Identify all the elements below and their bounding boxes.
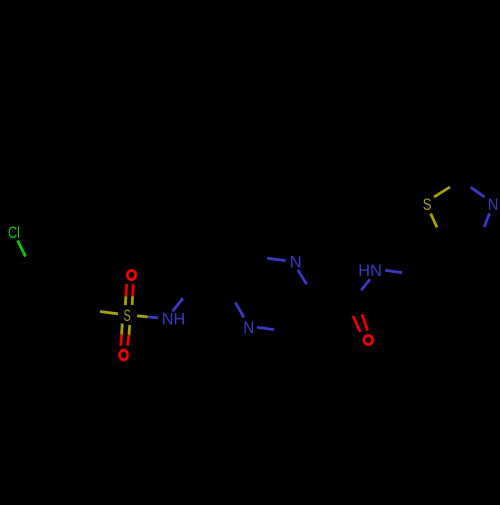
svg-text:S: S [124, 307, 131, 325]
thiazole bond S-C5 (yellow half) [431, 214, 437, 228]
S=O upper double bond right line (red half) [131, 284, 134, 296]
bond N1-C (blue half, diagonal) [298, 270, 307, 284]
svg-text:N: N [290, 254, 302, 272]
S=O lower double bond left line (red half) [119, 335, 123, 346]
oxygen label O (sulfonyl lower) [120, 350, 128, 360]
bond N-CH2 (blue half) [385, 270, 402, 272]
thiazole bond N-C4 (blue half) [484, 213, 489, 227]
amide C=O left line (red half) [353, 316, 360, 332]
svg-text:N: N [243, 319, 254, 337]
svg-text:NH: NH [162, 311, 186, 329]
bond N-C amide (blue half) [361, 279, 370, 290]
S=O upper double bond right line (yellow half) [131, 296, 134, 305]
bond S-N (yellow half) [137, 316, 147, 317]
bond NH-CH (blue half) [172, 298, 183, 311]
svg-text:HN: HN [358, 262, 382, 280]
S=O lower double bond right line (red half) [128, 335, 130, 346]
oxygen label O (amide) [364, 335, 373, 344]
bond S-N (blue half) [148, 315, 158, 319]
bond N2-C (blue half, horizontal) [257, 327, 274, 329]
bond C-N1 piperazine (blue half, horizontal) [267, 258, 286, 260]
bond C-N2 piperazine (blue half) [235, 302, 244, 317]
oxygen label O (sulfonyl upper) [127, 270, 135, 279]
S=O lower double bond right line (yellow half) [128, 325, 131, 335]
S=O lower double bond left line (yellow half) [120, 324, 124, 335]
S=O upper double bond left line (red half) [125, 284, 129, 297]
thiazole bond S-C2 (yellow half) [434, 187, 450, 197]
bond C-S into sulfonyl (yellow half) [100, 312, 118, 314]
amide C=O right line (red half) [362, 314, 368, 330]
svg-text:N: N [488, 196, 499, 214]
thiazole bond C2-N (blue half) [471, 187, 485, 197]
svg-text:S: S [423, 196, 432, 214]
bond Cl-C (green half) [18, 241, 26, 257]
S=O upper double bond left line (yellow half) [124, 296, 127, 305]
svg-text:Cl: Cl [8, 224, 20, 242]
